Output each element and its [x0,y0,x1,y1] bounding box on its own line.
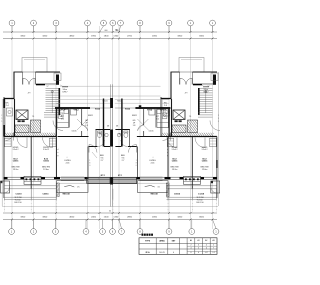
svg-text:60: 60 [116,29,118,31]
svg-text:C0915: C0915 [43,161,49,163]
svg-text:22.6: 22.6 [66,163,70,165]
svg-text:g: g [167,155,168,157]
svg-text:C0615: C0615 [149,131,154,133]
bottom bubble stems [12,220,217,229]
label living R2 [149,160,156,165]
label kitchen R [156,116,160,121]
svg-text:C0915: C0915 [43,194,50,196]
svg-text:M1021: M1021 [117,101,122,103]
svg-text:3300: 3300 [42,217,48,219]
svg-text:6.6: 6.6 [61,119,64,121]
label room B R [201,166,209,171]
svg-text:B-B 1:50: B-B 1:50 [15,202,22,204]
svg-text:UP17: UP17 [204,92,210,94]
svg-text:A2: A2 [205,239,207,242]
svg-text:4350: 4350 [152,217,158,219]
svg-text:4: 4 [206,245,207,247]
svg-text:C0915: C0915 [202,161,208,163]
svg-text:3300: 3300 [199,36,205,38]
svg-text:4: 4 [173,252,174,254]
svg-text:KT-1: KT-1 [101,175,105,177]
svg-text:n: n [167,152,168,154]
svg-text:3300: 3300 [20,36,26,38]
svg-text:5: 5 [198,248,199,250]
svg-text:A3: A3 [213,239,215,242]
svg-text:3300: 3300 [20,217,26,219]
dark chunk kitchen R [139,105,142,109]
right wing (entry bay stairs shaft) [121,58,247,141]
svg-text:TM1518: TM1518 [150,194,158,196]
column grid lines [12,26,213,229]
note block R [197,197,204,204]
west wall piers [3,99,218,168]
svg-text:C0915: C0915 [172,161,178,163]
left unit rooms and terrace [1,137,111,213]
top dimension text [20,30,204,37]
top grid bubbles [9,20,215,26]
svg-text:3.3x4.2: 3.3x4.2 [43,149,49,151]
kitchen wall bold labels [60,108,167,111]
svg-text:2F-A: 2F-A [146,251,151,254]
right edge line [218,72,220,206]
label living L [57,149,58,157]
svg-text:2: 2 [1,115,2,117]
svg-text:3.3x4.2: 3.3x4.2 [172,149,178,151]
speckle texts [1,86,219,133]
label living L2 [64,160,71,165]
top bubble stems [12,26,213,32]
svg-text:A1: A1 [198,239,200,242]
label entry garden L [63,87,69,94]
svg-text:2.7: 2.7 [122,160,125,162]
svg-text:140.25: 140.25 [159,252,165,254]
label room B L [42,166,50,171]
svg-text:17: 17 [47,86,49,88]
svg-text:2: 2 [218,115,219,117]
label hall R [133,120,136,127]
site line [2,206,218,208]
label living R [167,149,168,157]
svg-text:1300: 1300 [113,36,119,38]
label hall L [85,120,88,127]
svg-text:YT12: YT12 [73,110,79,112]
table frame [139,238,217,255]
svg-text:3600: 3600 [199,217,205,219]
svg-text:2: 2 [191,245,192,247]
room top labels [13,147,209,151]
top dimension lines [3,31,217,40]
svg-text:4: 4 [191,248,192,250]
svg-text:C0615: C0615 [72,131,77,133]
svg-text:C0915: C0915 [13,161,19,163]
svg-text:3450: 3450 [177,217,183,219]
svg-text:1950: 1950 [91,36,97,38]
svg-text:1.8: 1.8 [85,125,88,127]
svg-text:60: 60 [109,211,111,213]
svg-text:CFCF: CFCF [60,110,66,112]
label room A L [12,166,20,171]
svg-text:6.6: 6.6 [156,119,159,121]
svg-text:n: n [57,152,58,154]
svg-text:2400: 2400 [91,217,97,219]
party wall [110,84,113,206]
svg-text:M0821: M0821 [132,115,137,117]
table text [145,239,215,254]
label bath R [164,103,168,108]
svg-text:CFCF: CFCF [160,110,166,112]
svg-text:3450: 3450 [42,36,48,38]
label kitchen L [61,116,65,121]
svg-text:6: 6 [206,248,207,250]
svg-text:C1218: C1218 [16,194,23,196]
room codes L [13,158,49,162]
svg-text:8: 8 [89,163,90,165]
bottom grid bubbles [9,229,219,235]
svg-text:9.2: 9.2 [212,252,214,254]
svg-text:600: 600 [105,30,108,32]
courtyard lines [56,86,169,103]
svg-text:UP17: UP17 [63,92,69,94]
svg-text:TM1518: TM1518 [62,194,70,196]
svg-text:12.6m: 12.6m [202,169,208,171]
svg-text:C1218: C1218 [198,194,205,196]
svg-text:4350: 4350 [152,36,158,38]
left edge line [1,99,3,206]
svg-text:8: 8 [198,252,199,254]
svg-text:8: 8 [191,252,192,254]
right unit rooms and terrace [113,137,220,213]
svg-text:12.6m: 12.6m [43,169,49,171]
svg-text:d: d [57,149,58,151]
svg-text:13.2m: 13.2m [13,169,19,171]
svg-text:5: 5 [213,245,214,247]
svg-text:M0821: M0821 [88,115,93,117]
svg-text:5: 5 [218,121,219,123]
svg-text:1800: 1800 [104,36,110,38]
note block L [15,197,22,204]
svg-text:TYPE: TYPE [145,240,151,242]
label entry garden R [204,87,210,94]
svg-text:B-B 1:50: B-B 1:50 [197,202,204,204]
right unit kitchen and bath [115,99,170,178]
table title [142,234,154,236]
dark chunk party bottom [110,177,113,185]
closet rects [5,138,217,147]
label bath L [6,103,10,108]
svg-text:KT-1: KT-1 [118,175,122,177]
svg-text:C0915: C0915 [174,194,181,196]
svg-text:8: 8 [136,163,137,165]
label bed small R [121,155,126,162]
label bed small L [100,155,105,162]
svg-text:2850: 2850 [127,217,133,219]
svg-text:9: 9 [1,118,2,120]
bottom dimension text [20,217,204,219]
svg-text:A0: A0 [190,239,192,242]
svg-text:13.2m: 13.2m [172,169,178,171]
room codes R [172,158,208,162]
svg-text:3: 3 [198,245,199,247]
svg-text:AREA: AREA [159,239,165,242]
svg-text:YT12: YT12 [147,110,153,112]
svg-text:7: 7 [213,248,214,250]
svg-text:2.7: 2.7 [101,160,104,162]
svg-text:1: 1 [89,160,90,162]
svg-text:17: 17 [208,86,210,88]
svg-text:3300: 3300 [177,36,183,38]
svg-text:22.6: 22.6 [151,163,155,165]
bottom dimension lines [3,212,217,221]
svg-text:1: 1 [136,160,137,162]
leader lines [60,85,204,180]
svg-text:d: d [167,149,168,151]
svg-text:4800: 4800 [69,36,75,38]
bath wall chunks [103,130,123,147]
label room A R [171,166,179,171]
left unit kitchen and bath [55,99,111,178]
svg-text:JYT: JYT [27,93,30,95]
left wing (entry bay stairs shaft) [0,58,90,199]
svg-text:4650: 4650 [69,217,75,219]
svg-text:1500: 1500 [104,217,110,219]
svg-text:3.3x4.2: 3.3x4.2 [202,149,208,151]
svg-text:M1021: M1021 [102,101,107,103]
svg-text:JYT: JYT [184,93,187,95]
svg-text:0: 0 [89,165,90,167]
svg-text:1350: 1350 [113,217,119,219]
svg-text:0: 0 [136,165,137,167]
svg-text:3.3x4.2: 3.3x4.2 [13,149,19,151]
svg-text:g: g [57,155,58,157]
svg-text:1.8: 1.8 [133,125,136,127]
svg-text:5: 5 [1,121,2,123]
svg-text:2700: 2700 [127,36,133,38]
svg-text:1:17: 1:17 [205,252,208,254]
svg-text:9: 9 [218,118,219,120]
